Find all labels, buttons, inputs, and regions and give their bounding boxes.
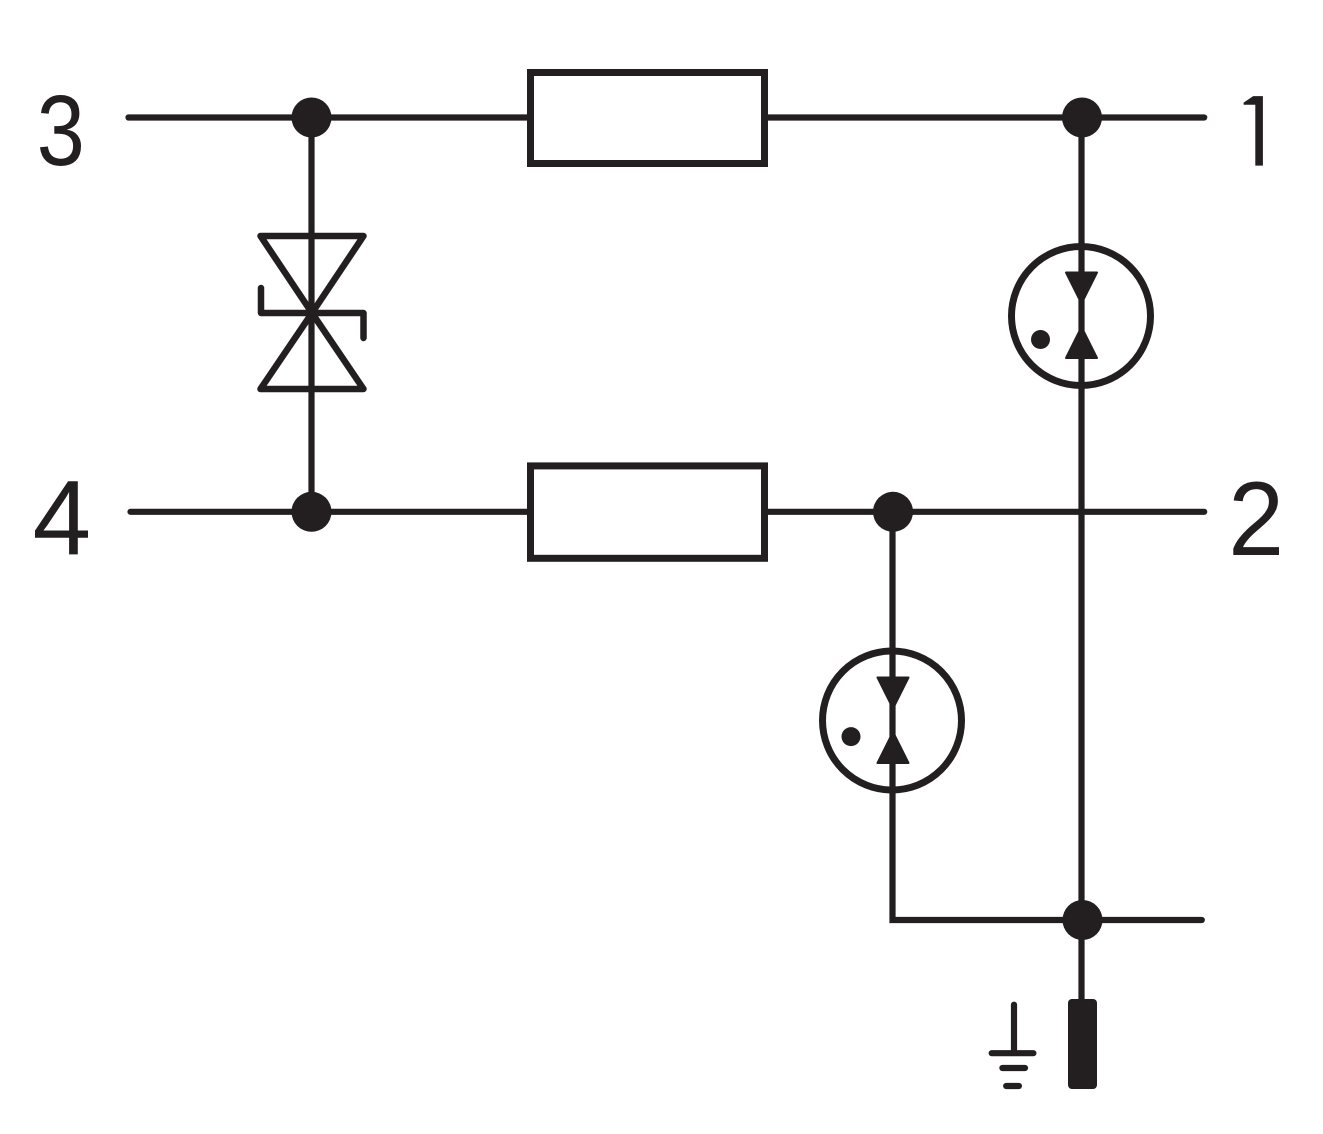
node A: junction top rail / suppressor branch	[292, 98, 332, 138]
node B: junction top rail / tube U1 branch	[1062, 98, 1102, 138]
resistor R1	[531, 73, 765, 164]
gas discharge tube U2	[823, 651, 962, 790]
terminal label 1	[1244, 96, 1263, 166]
gas discharge tube U1	[1012, 247, 1151, 386]
wire: terminal 3 to resistor R1 (top rail)	[129, 114, 1205, 120]
terminal label 4	[35, 481, 88, 554]
wire: branch from node D through gas discharge tube U2 to ground rail	[893, 512, 1202, 920]
terminal block (earth electrode)	[1068, 999, 1097, 1089]
terminal label 3	[40, 95, 81, 166]
node C: junction bottom rail / suppressor branch	[292, 492, 332, 532]
wire: right vertical branch through gas discharge tube U1	[1078, 118, 1084, 1000]
node D: junction bottom rail / tube U2 branch	[873, 492, 913, 532]
ground	[992, 1005, 1034, 1086]
terminal label 2	[1233, 482, 1279, 556]
node E: junction ground rail	[1063, 900, 1103, 940]
suppressor diode V1 (bidirectional TVS)	[261, 236, 364, 389]
resistor R2	[531, 466, 765, 558]
wire: left vertical branch through suppressor diode	[308, 118, 314, 512]
wire: bottom rail terminal 4 to terminal 2	[131, 509, 1205, 515]
